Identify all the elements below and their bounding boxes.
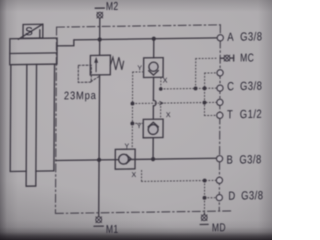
- pilot D row: [205, 197, 217, 199]
- pilot vertical x204: [203, 73, 205, 116]
- port MD (gauge connection): [200, 213, 226, 235]
- relief valve spring: [110, 57, 123, 70]
- value label 23Mpa: [64, 90, 97, 102]
- check valve CV1: [144, 58, 164, 78]
- pilot CV3 X drop: [141, 170, 143, 181]
- pilot CV2 Y row: [132, 122, 143, 124]
- pilot MC drop: [195, 59, 197, 89]
- cylinder piston rod: [26, 64, 36, 186]
- port M2 (gauge connection): [95, 1, 118, 18]
- wire from cylinder cap to A bus: [57, 40, 74, 46]
- relief valve RV1: [90, 55, 110, 75]
- pilot T row: [204, 114, 217, 116]
- pilot arrow on row y103: [160, 102, 163, 105]
- manifold enclosure border (chain line): [55, 25, 232, 214]
- pilot CV2 X drop: [160, 103, 162, 119]
- wire top bus (A line): [74, 38, 217, 40]
- pilot CV1 X drop: [160, 78, 162, 89]
- port T: [217, 108, 263, 122]
- wire relief output down to B bus and M1: [98, 75, 101, 217]
- port D: [216, 189, 263, 203]
- pilot port74 row: [205, 72, 218, 74]
- port B: [216, 153, 261, 167]
- pilot junction dots: [130, 86, 207, 200]
- node junction A-bus / CV1: [152, 37, 156, 41]
- pilot MC row: [196, 57, 218, 59]
- node junction B-bus / CV2: [151, 157, 155, 161]
- port (plugged) upper: [217, 70, 223, 76]
- pilot CV1 Y row: [133, 71, 144, 73]
- wire CV1-CV2 vertical with line hop: [153, 39, 156, 160]
- pilot Y vertical: [131, 72, 133, 149]
- pilot line network (dotted): [132, 58, 217, 214]
- port (plugged) middle: [217, 99, 223, 105]
- relief valve pilot box (dashed): [78, 65, 99, 82]
- port A: [217, 30, 262, 44]
- pilot row y103: [132, 102, 216, 103]
- pilot C row: [161, 87, 217, 90]
- pilot vertical x205: [204, 181, 206, 198]
- pilot MD stem: [203, 198, 205, 213]
- node junction A-bus / M2: [98, 37, 102, 41]
- port C: [217, 80, 263, 94]
- port (plugged) lower: [216, 177, 222, 183]
- pilot B-blank row: [142, 180, 217, 181]
- wire B bus (lower bus): [56, 158, 217, 160]
- wire M2 / relief feed vertical: [99, 18, 101, 56]
- cylinder barrel walls: [10, 64, 54, 171]
- check valve CV2: [143, 119, 163, 138]
- node junction B-bus / relief line: [97, 158, 101, 162]
- check valve CV3 (inline on B bus): [115, 149, 135, 169]
- cylinder stroke-limiter box S: [18, 24, 43, 39]
- port M1 (gauge connection): [94, 217, 119, 237]
- pilot designator letters: [124, 65, 171, 179]
- cylinder cap / gland block: [10, 38, 57, 65]
- port MC (test coupling): [220, 52, 254, 65]
